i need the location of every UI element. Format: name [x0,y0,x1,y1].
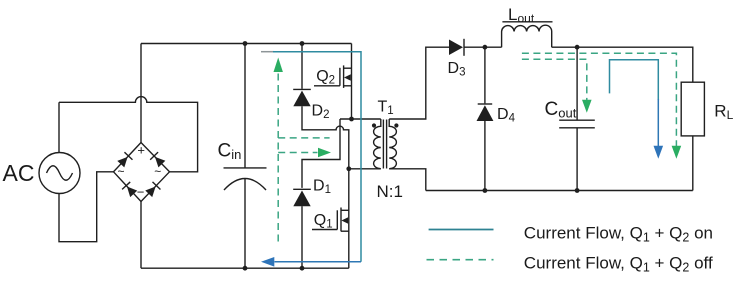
current flow solid lead-in, primary [261,51,274,53]
svg-text:Q2: Q2 [316,68,335,87]
wire: bridge + output up to top rail [140,44,142,143]
diode D2 branch from top rail [301,44,303,89]
diode D4 cathode wire [484,47,486,103]
svg-text:D1: D1 [313,177,331,196]
svg-text:Current Flow, Q1 + Q2 on: Current Flow, Q1 + Q2 on [524,223,713,244]
dashed wire: secondary off lower run to Cout [522,59,587,101]
svg-text:D4: D4 [497,106,516,125]
legend dashed line sample [427,259,494,261]
svg-text:T1: T1 [378,99,394,118]
node: D3/D4/Lout junction [483,45,488,50]
capacitor Cin branch top wire [244,44,246,168]
svg-text:N:1: N:1 [377,182,403,201]
svg-text:D3: D3 [448,60,466,79]
resistor RL [681,82,704,136]
bridge rectifier BR1 diamond [114,143,170,202]
transistor Q1 drain stub [341,209,349,211]
node: Cin bottom junction [243,266,248,271]
capacitor Cout top wire [576,47,578,120]
arrow: secondary on-current down arrowhead [654,146,664,159]
transistor Q2 gate lead [314,85,340,87]
wire: AC bottom lead to bridge left vertex [59,172,114,242]
svg-text:Cout: Cout [545,99,577,121]
transistor Q1 gate bar [336,210,338,229]
current flow solid loop, secondary (Q1+Q2 on) [610,60,659,100]
diode D4 triangle [477,105,494,121]
diode D4 cathode bar [478,103,493,105]
arrow: primary on-current left arrowhead [261,257,274,267]
wire: Lout to load top rail [552,47,693,82]
dashed wire: secondary off upper run to load [522,53,677,146]
bridge diode top-left [117,152,133,168]
current flow dashed loop, secondary (Q1+Q2 off) [522,53,677,146]
wire: AC top lead up [58,102,60,152]
legend solid line sample [429,229,494,231]
capacitor Cout bottom plate [559,127,595,129]
inductor Lout winding [502,25,552,47]
bridge diode top-right [150,152,166,168]
transformer T1 primary winding [374,119,381,169]
wire: D1 anode to bottom rail [301,206,303,268]
capacitor Cout top plate [559,119,595,121]
transformer T1 primary phase dot [372,123,376,127]
wire: secondary top to D3 [389,47,449,119]
diode D2 cathode bar [293,88,311,90]
node: D2 top junction [300,41,305,46]
arrow: primary off right arrowhead [318,148,331,158]
wire: bottom rail (primary -) [141,267,349,269]
svg-text:Lout: Lout [508,5,535,26]
svg-text:~: ~ [118,165,125,179]
wire: primary bottom node to transformer [349,168,381,170]
dashed wire: primary off upper horizontal [278,137,329,139]
wire: D4 anode to bottom rail [484,121,486,191]
node: Cout top junction [575,45,580,50]
diode D1 cathode wire from node A [302,119,340,188]
transistor Q2 body arrow [344,74,351,81]
transistor Q2 drain from top rail [351,44,353,120]
node A: primary top junction [349,117,354,122]
transistor Q2 source stub [344,85,352,87]
current flow solid, primary bottom segment with arrow [275,261,362,263]
capacitor Cin top plate [224,167,267,169]
transistor Q1 body arrow [341,217,348,224]
capacitor Cin curved plate [224,179,266,191]
label Lout underline [502,21,552,23]
wire: D2 anode down and right to primary bottom node (hop over node-A wire) [302,106,349,169]
AC source sine symbol [47,166,73,181]
transistor Q1 channel bar [340,208,342,232]
svg-text:−: − [137,185,145,200]
transformer T1 secondary winding [389,119,396,169]
transistor Q2 gate bar [339,68,341,86]
svg-text:AC: AC [3,160,35,186]
bridge diode bottom-right [145,182,161,198]
svg-text:Current Flow, Q1 + Q2 off: Current Flow, Q1 + Q2 off [524,254,713,275]
diode D3 triangle [449,40,463,56]
arrow: primary off up arrowhead [274,58,283,73]
transistor Q1 drain vertical [348,169,350,268]
transistor Q1 source stub [341,230,349,232]
svg-text:Q1: Q1 [314,212,333,231]
transistor Q2 channel bar [343,65,345,88]
svg-text:Cin: Cin [218,141,242,163]
svg-text:~: ~ [154,165,161,179]
wire: AC top to bridge right vertex (with hop over bridge top lead) [59,97,198,172]
diode D1 triangle [293,191,310,207]
diode D2 triangle [293,91,310,107]
capacitor Cin bottom wire [244,179,246,269]
dashed wire: primary off vertical [277,74,279,246]
wire: RL bottom to return rail [692,136,694,191]
wire: top rail (primary +) [141,43,352,45]
wire: secondary bottom to output return rail [389,169,426,191]
wire: output return rail [426,190,693,192]
current flow solid, secondary down segment with arrow [657,99,659,147]
wire: node A to transformer primary top [340,118,381,120]
svg-text:+: + [137,143,145,158]
wire: bridge - output down to bottom rail [140,202,142,269]
diode D3 cathode bar [463,39,465,56]
node: D4 bottom junction [483,188,488,193]
current flow solid loop, primary (Q1+Q2 on) [273,52,361,262]
svg-text:RL: RL [714,102,733,123]
node: Cout bottom junction [575,188,580,193]
transformer T1 secondary phase dot [394,123,398,127]
transformer T1 core lines [383,120,386,169]
node: primary bottom junction [346,166,351,171]
node: D1 bottom junction [300,266,305,271]
node: Cin top junction [243,41,248,46]
arrow: secondary off down arrowhead at load [672,146,682,159]
dashed wire: primary off lower horizontal [278,152,317,154]
AC source V1 [39,153,80,194]
svg-text:D2: D2 [312,103,330,122]
current flow dashed loop, primary (Q1+Q2 off) [278,74,329,246]
capacitor Cout bottom wire [576,128,578,191]
diode D1 cathode bar [293,188,311,190]
bridge diode bottom-left [122,182,138,198]
wire: D3 cathode to Lout [464,46,502,48]
transistor Q2 drain stub [344,67,352,69]
transistor Q1 gate lead [312,229,337,231]
arrow: secondary off down arrowhead at Cout [582,100,592,113]
